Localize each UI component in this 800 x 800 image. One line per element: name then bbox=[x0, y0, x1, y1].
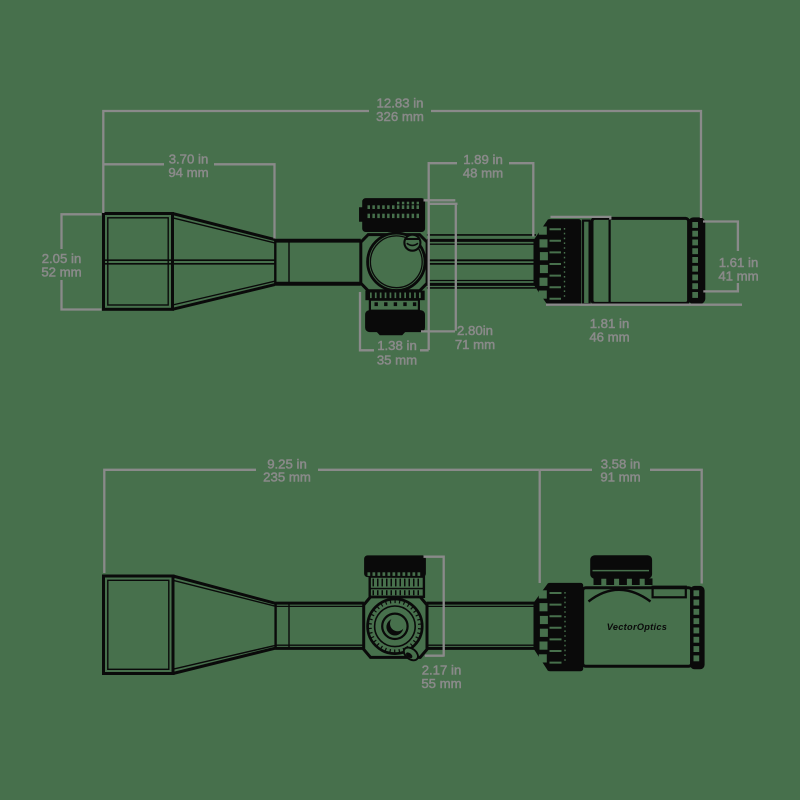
diopter ring (side) bbox=[689, 218, 705, 304]
svg-text:94 mm: 94 mm bbox=[168, 165, 208, 180]
label plate (top view) bbox=[653, 587, 686, 598]
bottom band 2 (side) bbox=[370, 300, 419, 311]
elevation cap knurl dots bbox=[368, 202, 419, 217]
main tube left (side) bbox=[275, 240, 361, 284]
rear cone teeth (side) bbox=[539, 227, 546, 234]
dim 3.70 in bracket bbox=[104, 164, 275, 238]
power ring (top view) bbox=[548, 583, 583, 670]
V logo bbox=[386, 619, 403, 636]
diopter slots (side) bbox=[693, 223, 698, 298]
turret circle (side) bbox=[368, 233, 425, 290]
bell seam lines (side) bbox=[104, 260, 276, 264]
saddle octagon (top view) bbox=[364, 597, 427, 658]
svg-text:46 mm: 46 mm bbox=[589, 329, 629, 344]
tube joint (top view) bbox=[274, 603, 276, 648]
eyepiece witness line bbox=[551, 217, 611, 220]
dim 3.58 in bracket bbox=[540, 470, 702, 584]
rear cone teeth (top view) bbox=[539, 591, 546, 598]
svg-text:48 mm: 48 mm bbox=[463, 166, 503, 181]
green knurl details bottom view bbox=[368, 571, 699, 663]
scope side view black drawing bbox=[104, 199, 705, 335]
dim 1.89 in bracket bbox=[429, 163, 534, 350]
main tube right (side) bbox=[427, 235, 536, 288]
dim 2.05 in bracket bbox=[62, 214, 102, 309]
rear cone (side) bbox=[534, 221, 548, 305]
objective bell outer (side) bbox=[104, 214, 173, 310]
screw ellipse (top view) bbox=[401, 645, 420, 663]
scope bottom (top view) black drawing bbox=[104, 556, 705, 674]
svg-text:35 mm: 35 mm bbox=[377, 352, 417, 367]
small black details groups bbox=[370, 293, 424, 596]
knob tail (side) bbox=[377, 332, 405, 335]
dim 2.17 in bracket bbox=[424, 557, 444, 657]
svg-text:235 mm: 235 mm bbox=[263, 470, 311, 485]
dim 1.61 in bracket bbox=[703, 222, 738, 292]
dim 2.80 in bracket bbox=[421, 200, 458, 331]
objective cone (side) bbox=[173, 214, 275, 310]
saddle (side) bbox=[361, 235, 427, 291]
svg-text:71 mm: 71 mm bbox=[455, 337, 495, 352]
screw cap circle (side) bbox=[404, 235, 420, 251]
body division line (side) bbox=[608, 220, 610, 303]
dome arc (top view) bbox=[589, 590, 651, 602]
svg-text:VectorOptics: VectorOptics bbox=[607, 622, 667, 632]
objective cone (top view) bbox=[173, 576, 275, 674]
rear cone (top view) bbox=[534, 584, 548, 669]
main tube left (top view) bbox=[275, 603, 364, 648]
throw knob groove bbox=[593, 570, 650, 572]
windage knob solid (side) bbox=[366, 311, 425, 332]
power ring grooves (side) bbox=[550, 229, 562, 299]
svg-text:2.80in: 2.80in bbox=[457, 323, 493, 338]
svg-text:41 mm: 41 mm bbox=[718, 268, 758, 283]
svg-text:91 mm: 91 mm bbox=[600, 470, 640, 485]
objective bell outer (top view) bbox=[104, 576, 174, 674]
windage knurl band (top view) bbox=[370, 577, 424, 597]
svg-text:326 mm: 326 mm bbox=[376, 109, 424, 124]
throw lever knob (top view) bbox=[591, 556, 652, 579]
gap band (side) bbox=[583, 221, 590, 305]
dim 9.25 in bracket bbox=[104, 470, 539, 573]
windage knob cap (top view) bbox=[365, 556, 426, 577]
power ring grooves (top view) bbox=[550, 593, 562, 663]
green knurl details side view bbox=[368, 202, 698, 299]
svg-text:55 mm: 55 mm bbox=[421, 676, 461, 691]
gray dimension annotations bbox=[62, 111, 743, 657]
eyepiece body (side) bbox=[592, 218, 689, 303]
dimension texts bbox=[41, 96, 758, 692]
dim 1.81 in line bbox=[546, 304, 742, 306]
power ring (side) bbox=[548, 220, 581, 306]
main tube right (top view) bbox=[427, 603, 535, 648]
windage cap dashes bbox=[368, 573, 420, 576]
bottom knurl band 1 (side) bbox=[366, 291, 424, 300]
dim 1.38 in bracket bbox=[360, 292, 429, 350]
svg-text:52 mm: 52 mm bbox=[41, 265, 81, 280]
tube joint (side) bbox=[274, 239, 276, 285]
eyepiece body (top view) bbox=[583, 588, 692, 667]
svg-text:1.38 in: 1.38 in bbox=[377, 338, 417, 353]
turret cap circle (top view) bbox=[368, 599, 423, 654]
elevation turret cap (side) bbox=[363, 199, 425, 232]
knob tabs bbox=[594, 578, 653, 585]
right knurl ring (top view) bbox=[691, 586, 705, 668]
objective bell inner (side) bbox=[108, 218, 168, 305]
right knurl slots (top view) bbox=[694, 591, 699, 661]
dim 12.83 in bracket bbox=[103, 111, 701, 218]
